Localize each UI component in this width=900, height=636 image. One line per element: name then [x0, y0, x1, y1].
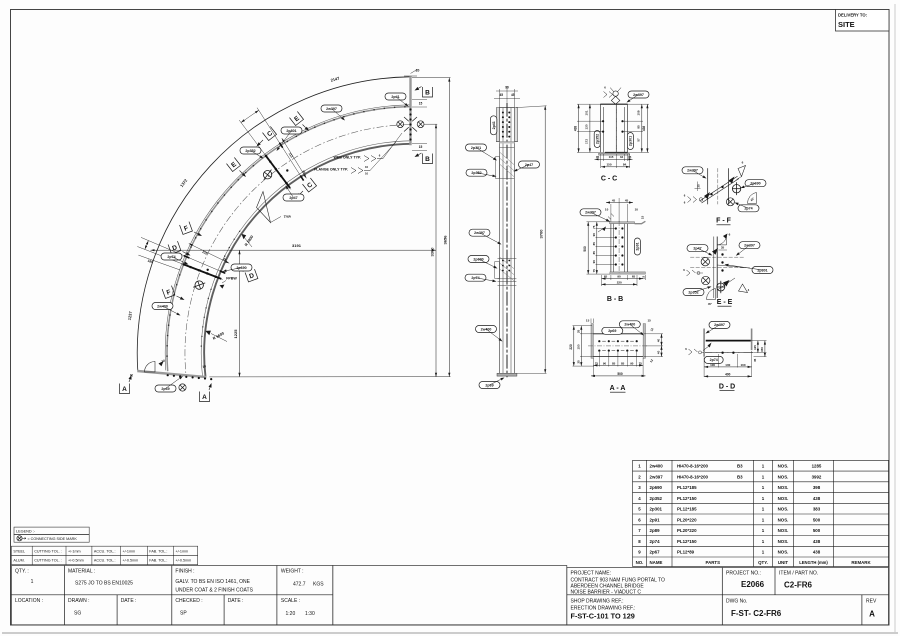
svg-text:NAME: NAME: [650, 560, 663, 565]
svg-text:QTY. :: QTY. :: [15, 569, 29, 575]
svg-text:100: 100: [710, 363, 715, 367]
svg-text:+/-0.5mm: +/-0.5mm: [68, 559, 84, 563]
section C-C dims bottom: [595, 158, 633, 160]
weld flag TYP upper: [257, 192, 271, 223]
tolerance table: [11, 546, 197, 555]
svg-text:FPBW: FPBW: [226, 277, 237, 281]
svg-text:E2066: E2066: [741, 580, 765, 589]
svg-text:57: 57: [637, 138, 641, 142]
svg-text:REMARK: REMARK: [851, 560, 871, 565]
section flag C lower: [302, 178, 316, 192]
connecting side marks at top end: [397, 121, 404, 128]
svg-text:500: 500: [583, 246, 587, 252]
svg-text:150: 150: [606, 163, 611, 167]
svg-text:3191: 3191: [292, 243, 302, 248]
svg-text:+/-0.5mm: +/-0.5mm: [176, 559, 192, 563]
svg-text:DATE :: DATE :: [121, 598, 137, 604]
svg-text:109: 109: [637, 110, 641, 115]
elevation mid splice: [500, 257, 515, 281]
section flag F upper: [180, 222, 193, 235]
svg-text:1225: 1225: [233, 329, 238, 339]
svg-text:KGS: KGS: [313, 581, 324, 587]
oval 2w397 elev: [469, 229, 490, 236]
svg-text:DWG No.: DWG No.: [726, 598, 747, 604]
svg-text:85: 85: [612, 361, 616, 365]
svg-text:UNIT: UNIT: [778, 560, 789, 565]
svg-text:2p690: 2p690: [236, 266, 246, 270]
svg-text:2p74: 2p74: [167, 255, 175, 259]
svg-text:130: 130: [585, 124, 589, 129]
svg-text:2p67: 2p67: [650, 550, 661, 555]
svg-text:C2-FR6: C2-FR6: [784, 580, 813, 589]
svg-text:1285: 1285: [812, 464, 822, 469]
svg-text:NOISE BARRIER - VIADUCT C: NOISE BARRIER - VIADUCT C: [571, 589, 642, 595]
svg-text:75: 75: [592, 225, 596, 229]
svg-text:172: 172: [585, 139, 589, 144]
svg-text:20: 20: [416, 69, 420, 73]
svg-text:PL12*89: PL12*89: [677, 550, 695, 555]
svg-text:PARTS: PARTS: [705, 560, 720, 565]
svg-text:400: 400: [725, 372, 731, 376]
svg-text:PL20*220: PL20*220: [677, 528, 697, 533]
ext line from centroid to 3300: [424, 123, 437, 125]
elevation bottom end plate: [497, 373, 517, 376]
svg-text:PL20*220: PL20*220: [677, 517, 697, 522]
svg-text:2w400: 2w400: [650, 464, 664, 469]
svg-text:UNDER COAT & 2 FINISH COATS: UNDER COAT & 2 FINISH COATS: [175, 587, 253, 593]
top end splice bolt dots: [409, 108, 411, 110]
svg-text:35: 35: [596, 155, 600, 159]
section F-F pie: [747, 193, 756, 204]
svg-text:FAB. TOL.:: FAB. TOL.:: [149, 559, 167, 563]
tick marks around top marks: [404, 117, 417, 132]
svg-text:LOCATION :: LOCATION :: [15, 598, 43, 604]
section A-A body: [591, 324, 593, 359]
oval 2p41 main: [385, 93, 406, 100]
svg-text:SITE: SITE: [838, 20, 855, 29]
oval 2p301 EE: [752, 267, 773, 274]
svg-text:95: 95: [637, 125, 641, 129]
section B-B left dims: [587, 222, 589, 274]
svg-text:15: 15: [419, 145, 423, 149]
oval 2p74 main: [161, 253, 182, 260]
svg-text:FAB. TOL.:: FAB. TOL.:: [149, 549, 167, 553]
svg-text:10: 10: [365, 172, 369, 176]
svg-text:2p352: 2p352: [245, 149, 255, 153]
dim 3191 horizontal: [151, 249, 437, 251]
oval 2p690 FF: [745, 180, 766, 187]
upper splice connecting-side mark: [260, 167, 274, 182]
elevation top splice: [496, 108, 499, 142]
svg-text:PL12*185: PL12*185: [677, 507, 697, 512]
svg-text:NOS.: NOS.: [778, 550, 789, 555]
svg-text:2p47: 2p47: [525, 163, 533, 167]
svg-text:85: 85: [592, 242, 596, 246]
svg-text:500: 500: [813, 517, 821, 522]
svg-text:90: 90: [592, 233, 596, 237]
section F-F oplus: [732, 182, 740, 195]
section E-E left dims: [687, 270, 696, 276]
oval 2w397 FF: [682, 167, 703, 174]
section flag A left: [120, 384, 130, 394]
oval 2w397 DD: [709, 321, 730, 328]
section D-D bottom dims: [704, 366, 752, 368]
section E-E body: [716, 237, 718, 299]
svg-text:101: 101: [585, 110, 589, 115]
svg-text:40: 40: [657, 350, 661, 354]
pie mark at bottom end: [145, 362, 156, 373]
svg-text:A: A: [202, 394, 207, 401]
svg-text:2p301: 2p301: [650, 507, 663, 512]
svg-text:SP: SP: [180, 610, 187, 616]
svg-text:TYP.: TYP.: [284, 215, 292, 219]
svg-text:2p301: 2p301: [757, 268, 767, 272]
section C-C body: [600, 103, 627, 105]
upper splice (section C/E) plates: [257, 108, 304, 181]
svg-text:35: 35: [628, 155, 632, 159]
section E-E otimes2: [702, 276, 710, 284]
lower splice radial dim line: [189, 244, 229, 264]
svg-text:CUTTING TOL. :: CUTTING TOL. :: [34, 549, 62, 553]
section A-A bottom dims: [593, 364, 643, 366]
section D-D right dims: [757, 341, 759, 353]
dim 1225 vertical: [239, 250, 241, 377]
svg-text:WEIGHT :: WEIGHT :: [281, 569, 304, 575]
section C-C dims sides: [578, 104, 580, 152]
svg-text:45°: 45°: [708, 302, 712, 306]
svg-text:40: 40: [657, 339, 661, 343]
svg-text:STEEL: STEEL: [13, 549, 25, 553]
section flag B lower: [423, 154, 433, 164]
svg-text:15: 15: [586, 319, 590, 323]
svg-text:15: 15: [642, 276, 646, 280]
upper splice radial dim line: [282, 138, 307, 178]
svg-text:2p89: 2p89: [650, 528, 661, 533]
section E-E triangle flag: [739, 284, 748, 293]
svg-text:A - A: A - A: [610, 385, 626, 392]
svg-text:2p74: 2p74: [650, 539, 661, 544]
svg-text:90: 90: [617, 275, 621, 279]
svg-text:438: 438: [813, 539, 821, 544]
svg-text:B3: B3: [737, 474, 743, 479]
elevation gusset bracket: [496, 157, 500, 179]
svg-text:2w397: 2w397: [714, 323, 725, 327]
oval 2p301 CC: [627, 133, 633, 150]
svg-text:ERECTION DRAWING REF.:: ERECTION DRAWING REF.:: [571, 605, 636, 611]
svg-text:3656: 3656: [443, 235, 448, 245]
oval 2p74 FF: [738, 205, 759, 212]
section F-F left weld dims: [688, 197, 697, 203]
oval 2p352 main: [240, 147, 261, 154]
svg-text:90: 90: [603, 361, 607, 365]
dim 3300 vertical: [435, 124, 437, 377]
svg-text:S275 JO TO BS EN10025: S275 JO TO BS EN10025: [75, 581, 133, 587]
svg-text:FLANGE ONLY TYP.: FLANGE ONLY TYP.: [314, 168, 348, 172]
svg-text:2p301: 2p301: [629, 136, 633, 146]
svg-text:383: 383: [813, 507, 821, 512]
svg-text:45: 45: [625, 198, 629, 202]
svg-text:35: 35: [721, 246, 725, 250]
svg-text:SCALE :: SCALE :: [281, 598, 300, 604]
svg-text:LEGEND :-: LEGEND :-: [16, 529, 36, 533]
svg-text:NO.: NO.: [636, 560, 644, 565]
svg-text:FINISH :: FINISH :: [175, 569, 194, 575]
svg-text:LENGTH (mm): LENGTH (mm): [799, 560, 828, 565]
svg-text:75: 75: [592, 269, 596, 273]
svg-text:35: 35: [576, 330, 580, 334]
svg-text:15: 15: [641, 216, 645, 220]
section C-C weld symbol: [613, 91, 618, 96]
section flag D upper: [168, 241, 181, 254]
svg-text:2p69: 2p69: [161, 387, 169, 391]
svg-text:2p69: 2p69: [608, 329, 616, 333]
svg-text:F-ST-C-101 TO 129: F-ST-C-101 TO 129: [571, 612, 635, 621]
svg-text:150: 150: [760, 347, 764, 352]
section D-D left welds: [689, 349, 698, 355]
svg-text:75: 75: [639, 361, 643, 365]
svg-text:2w397: 2w397: [474, 231, 485, 235]
svg-text:HI470-8-16*200: HI470-8-16*200: [677, 474, 709, 479]
svg-text:45: 45: [612, 198, 616, 202]
oval 2p301 elev: [466, 144, 487, 151]
svg-text:115: 115: [753, 345, 757, 350]
lower splice flange dim line: [138, 255, 180, 270]
svg-text:65: 65: [604, 275, 608, 279]
oval 2w397 main: [321, 105, 342, 112]
paper edge shadow: [2, 632, 898, 634]
parts table: [633, 459, 889, 461]
svg-text:1: 1: [31, 579, 34, 585]
ext line bottom: [209, 376, 450, 378]
section D-D body: [703, 329, 705, 357]
svg-text:438: 438: [642, 126, 646, 132]
svg-text:35: 35: [753, 358, 757, 362]
section F-F otimes: [726, 198, 734, 206]
oval 2p91 BB: [634, 238, 640, 255]
svg-text:ALUM.: ALUM.: [13, 559, 24, 563]
oval 2p41 elev: [490, 116, 497, 135]
lower splice connecting-side mark: [192, 279, 207, 291]
svg-text:NOS.: NOS.: [778, 528, 789, 533]
svg-text:2w397: 2w397: [687, 169, 698, 173]
section flag A right: [200, 392, 210, 402]
svg-text:E - E: E - E: [717, 299, 733, 306]
svg-text:75: 75: [595, 361, 599, 365]
oval 2p69 main: [155, 385, 176, 392]
oval 2p301 main: [281, 127, 302, 134]
oval 2p69 elev: [479, 382, 500, 389]
svg-text:10: 10: [605, 208, 609, 212]
svg-text:PL12*150: PL12*150: [677, 539, 697, 544]
svg-text:2w397: 2w397: [650, 474, 664, 479]
svg-text:3992: 3992: [812, 474, 822, 479]
svg-text:B - B: B - B: [607, 296, 623, 303]
svg-text:3700: 3700: [539, 229, 544, 239]
svg-text:10: 10: [635, 208, 639, 212]
bottom end plate line: [137, 371, 206, 377]
oval 2w400 main: [152, 303, 173, 310]
main view outer flange arc: [137, 77, 410, 371]
svg-text:100: 100: [740, 363, 745, 367]
main view centreline arc: [185, 125, 410, 374]
section flag D lower: [245, 269, 258, 282]
svg-text:2p301: 2p301: [471, 146, 481, 150]
oval 2p74 elev: [465, 274, 486, 281]
oval 2p352 elev: [466, 169, 487, 176]
svg-text:QTY.: QTY.: [758, 560, 768, 565]
svg-text:+/-1mm: +/-1mm: [176, 549, 189, 553]
oval 2p690 main: [231, 264, 252, 271]
oval 2w400 elev: [476, 326, 497, 333]
svg-text:WEB ONLY TYP.: WEB ONLY TYP.: [334, 156, 362, 160]
svg-text:2p690: 2p690: [750, 182, 760, 186]
svg-text:+/-1mm: +/-1mm: [68, 549, 81, 553]
legend box: [14, 527, 89, 534]
svg-text:NOS.: NOS.: [778, 485, 789, 490]
svg-text:NOS.: NOS.: [778, 517, 789, 522]
section flag E upper: [289, 111, 303, 125]
section B-B body: [610, 222, 635, 224]
elevation member body: [499, 108, 501, 374]
oval 2p47 EE: [687, 245, 708, 252]
svg-text:35: 35: [697, 184, 701, 188]
material title block: [11, 566, 332, 625]
svg-text:1:20: 1:20: [286, 611, 296, 617]
svg-text:= CONNECTING SIDE MARK: = CONNECTING SIDE MARK: [28, 537, 78, 541]
section E-E top pie: [718, 235, 727, 245]
ext line from top end to 3656: [412, 77, 451, 79]
svg-text:NOS.: NOS.: [778, 464, 789, 469]
svg-text:D - D: D - D: [719, 383, 735, 390]
svg-text:90: 90: [630, 361, 634, 365]
svg-text:100: 100: [725, 363, 730, 367]
stud dots on gray arc: [404, 106, 406, 108]
svg-text:438: 438: [813, 496, 821, 501]
svg-text:2p91: 2p91: [636, 242, 640, 250]
svg-text:DATE :: DATE :: [228, 598, 244, 604]
svg-text:2p47: 2p47: [289, 196, 297, 200]
section flag B upper: [423, 87, 433, 97]
svg-text:DELIVERY TO:: DELIVERY TO:: [838, 13, 867, 18]
svg-text:ACCU. TOL.:: ACCU. TOL.:: [94, 549, 116, 553]
svg-text:15: 15: [648, 319, 652, 323]
svg-text:35: 35: [576, 360, 580, 364]
svg-text:84: 84: [623, 163, 627, 167]
oval 2p352 EE: [683, 289, 704, 296]
svg-text:438: 438: [573, 126, 577, 132]
svg-text:ITEM / PART NO.: ITEM / PART NO.: [779, 571, 818, 577]
main view inner flange arc: [204, 144, 411, 377]
svg-text:2p352: 2p352: [650, 496, 663, 501]
svg-text:2p69: 2p69: [485, 383, 493, 387]
svg-text:472.7: 472.7: [293, 581, 306, 587]
weld arrow BB: [602, 226, 606, 231]
svg-text:HI470-8-16*200: HI470-8-16*200: [677, 464, 709, 469]
svg-text:438: 438: [813, 550, 821, 555]
oval 2w397 EE: [739, 242, 760, 249]
svg-text:SHOP DRAWING REF.:: SHOP DRAWING REF.:: [571, 598, 624, 604]
svg-text:85: 85: [592, 251, 596, 255]
svg-text:PROJECT NAME:: PROJECT NAME:: [571, 571, 611, 577]
svg-text:C - C: C - C: [601, 176, 617, 183]
oval 2p47 elev: [519, 161, 540, 168]
svg-text:2p352: 2p352: [596, 134, 600, 144]
oval 2w400 AA: [619, 321, 640, 328]
svg-text:85: 85: [621, 361, 625, 365]
svg-text:34: 34: [620, 155, 624, 159]
svg-text:CUTTING TOL. :: CUTTING TOL. :: [34, 559, 62, 563]
svg-text:NOS.: NOS.: [778, 474, 789, 479]
svg-text:CHECKED :: CHECKED :: [175, 598, 202, 604]
section F-F flag: [738, 166, 746, 177]
svg-text:2p74: 2p74: [710, 358, 718, 362]
svg-text:REV: REV: [866, 598, 877, 604]
svg-text:115: 115: [609, 155, 614, 159]
svg-text:500: 500: [813, 528, 821, 533]
top end plate line: [409, 76, 411, 145]
oval 2p74 DD: [704, 356, 723, 363]
svg-text:B3: B3: [737, 464, 743, 469]
oval 2w397 BB: [580, 209, 601, 216]
svg-text:500: 500: [617, 372, 623, 376]
svg-text:PL12*150: PL12*150: [677, 496, 697, 501]
section E-E bottom pie: [706, 289, 715, 300]
svg-text:3300: 3300: [429, 247, 434, 257]
empty spare cell: [333, 566, 567, 625]
oval 2p69 AA: [602, 327, 623, 334]
inner arc stud dots: [239, 231, 240, 232]
oval 2p47 main: [283, 194, 304, 201]
svg-text:220: 220: [569, 344, 573, 350]
lower splice (section D/F) plates: [141, 237, 225, 273]
bottom end splice bolt dots: [167, 374, 169, 376]
oval 2p352 CC: [594, 131, 600, 148]
svg-text:150: 150: [576, 344, 580, 349]
svg-text:2p690: 2p690: [650, 485, 663, 490]
elevation dim 3700: [544, 106, 546, 374]
oval 2p690 elev: [468, 256, 489, 263]
section flag E lower: [226, 157, 240, 171]
section B-B bottom dims: [602, 278, 644, 280]
svg-text:MATERIAL :: MATERIAL :: [68, 569, 95, 575]
svg-text:NOS.: NOS.: [778, 496, 789, 501]
section F-F body: [707, 168, 709, 204]
section E-E oplus: [717, 281, 725, 293]
svg-text:DRAWN :: DRAWN :: [68, 598, 89, 604]
project title block: [567, 568, 889, 625]
svg-text:1:30: 1:30: [305, 611, 315, 617]
svg-text:F - F: F - F: [716, 218, 731, 225]
svg-text:NOS.: NOS.: [778, 507, 789, 512]
svg-text:ACCU. TOL.:: ACCU. TOL.:: [94, 559, 116, 563]
delivery-to box: [836, 10, 890, 32]
oval 2w397 CC: [628, 91, 649, 98]
svg-text:2p91: 2p91: [650, 517, 661, 522]
svg-text:F-ST- C2-FR6: F-ST- C2-FR6: [731, 609, 782, 618]
main view bottom flange inner edge arc: [201, 141, 410, 377]
svg-text:R: R: [130, 374, 133, 378]
section flag C upper: [262, 126, 276, 140]
svg-text:2p47: 2p47: [693, 247, 701, 251]
svg-text:15: 15: [419, 102, 423, 106]
section flag F lower: [162, 286, 175, 299]
svg-text:SG: SG: [74, 610, 81, 616]
svg-text:+/-1mm: +/-1mm: [123, 549, 136, 553]
svg-text:B: B: [425, 89, 430, 96]
svg-text:PROJECT NO.:: PROJECT NO.:: [726, 571, 761, 577]
svg-text:65: 65: [632, 275, 636, 279]
svg-text:2p41: 2p41: [492, 121, 496, 129]
